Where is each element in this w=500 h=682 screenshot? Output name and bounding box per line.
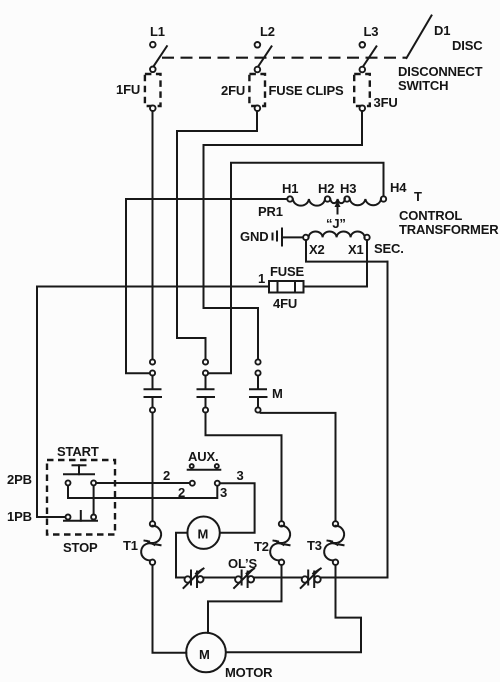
wire STOP right terminal up to START right terminal	[93, 486, 95, 515]
wire coil M to overload contacts	[176, 533, 187, 578]
svg-text:GND: GND	[240, 229, 268, 244]
overload contacts bus wire segment 4	[321, 577, 388, 579]
motor M	[186, 633, 226, 673]
svg-text:“J”: “J”	[326, 216, 346, 231]
fuse 2FU	[249, 74, 265, 111]
disconnect switch handle D1	[407, 16, 432, 59]
svg-text:DISCONNECT: DISCONNECT	[398, 64, 483, 79]
wire contact M3 to overload heater T3	[261, 413, 336, 521]
wire phase C from fuse 3FU down to contact M3	[204, 111, 363, 359]
svg-text:PR1: PR1	[258, 204, 283, 219]
overload heater T2	[270, 521, 290, 565]
svg-text:2PB: 2PB	[7, 472, 32, 487]
svg-text:1: 1	[258, 271, 265, 286]
wire heater T3 to motor	[226, 565, 361, 652]
svg-text:M: M	[199, 647, 210, 662]
transformer secondary winding SEC with X1 X2	[303, 232, 370, 241]
svg-text:T: T	[414, 189, 422, 204]
svg-text:2: 2	[163, 468, 170, 483]
overload contacts bus wire segment 1	[176, 577, 185, 579]
svg-text:3: 3	[237, 468, 244, 483]
wire START right terminal to AUX terminal 2	[96, 482, 190, 484]
svg-text:M: M	[198, 527, 209, 542]
svg-text:L1: L1	[150, 24, 165, 39]
wire contact M1 to overload heater T1	[152, 413, 154, 522]
pushbutton 1PB STOP (NC)	[64, 511, 97, 521]
svg-text:3: 3	[220, 485, 227, 500]
overload heater T1	[141, 521, 161, 565]
svg-text:SEC.: SEC.	[374, 241, 404, 256]
overload contacts bus wire segment 3	[254, 577, 301, 579]
contactor contact M2	[198, 359, 215, 412]
wire heater T1 to motor	[153, 565, 187, 653]
wire contact M2 to overload heater T2	[206, 413, 282, 522]
svg-text:H4: H4	[390, 180, 407, 195]
coil M	[187, 517, 219, 549]
svg-text:FUSE: FUSE	[270, 264, 305, 279]
svg-text:L3: L3	[364, 24, 379, 39]
disconnect switch pole L1	[150, 42, 167, 72]
fuse 3FU	[354, 74, 370, 111]
svg-text:3FU: 3FU	[374, 95, 398, 110]
mechanical link of disconnect switch (dashed)	[162, 57, 406, 59]
wire phase B from fuse 2FU down to contact M2	[177, 111, 257, 359]
svg-text:H1: H1	[282, 181, 298, 196]
svg-text:X1: X1	[348, 242, 364, 257]
AUX terminal 2	[190, 481, 195, 486]
svg-text:T2: T2	[254, 539, 269, 554]
wire heater T2 to motor top	[208, 565, 282, 633]
fuse 1FU	[145, 74, 161, 111]
wire fuse 4FU to left control bus	[37, 286, 269, 288]
svg-text:START: START	[57, 444, 99, 459]
overload contact OL3	[301, 569, 321, 589]
disconnect switch pole L2	[255, 42, 272, 72]
svg-text:2FU: 2FU	[221, 83, 245, 98]
svg-text:MOTOR: MOTOR	[225, 665, 273, 680]
svg-text:1FU: 1FU	[116, 82, 140, 97]
wire right-side control return bus	[387, 262, 389, 578]
wire START left terminal to AUX terminal 3 (holding circuit)	[68, 486, 217, 499]
svg-text:H3: H3	[340, 181, 356, 196]
svg-text:H2: H2	[318, 181, 334, 196]
svg-text:1PB: 1PB	[7, 509, 32, 524]
svg-text:FUSE CLIPS: FUSE CLIPS	[269, 83, 345, 98]
auxiliary contact AUX (NO)	[188, 464, 221, 470]
svg-text:M: M	[272, 386, 283, 401]
svg-text:T3: T3	[307, 538, 322, 553]
transformer T primary winding PR1 with taps H1 H2 H3 H4	[287, 196, 386, 205]
wire X1 down to fuse 4FU	[304, 240, 368, 286]
svg-text:2: 2	[178, 485, 185, 500]
svg-text:D1: D1	[434, 23, 450, 38]
wire from contact M1 junction up to transformer H1	[126, 199, 287, 373]
svg-text:X2: X2	[309, 242, 325, 257]
svg-text:CONTROL: CONTROL	[399, 208, 462, 223]
overload heater T3	[324, 521, 344, 565]
disconnect switch pole L3	[360, 42, 377, 72]
overload contact OL1	[184, 569, 204, 589]
pushbutton station dashed enclosure	[47, 460, 115, 535]
svg-text:TRANSFORMER: TRANSFORMER	[399, 222, 499, 237]
wire phase A from fuse 1FU down to contact M1	[152, 111, 154, 359]
wire from contact M2 junction up to transformer H4	[208, 163, 383, 373]
overload contacts bus wire segment 2	[204, 577, 235, 579]
svg-text:L2: L2	[260, 24, 275, 39]
contactor contact M3	[250, 359, 267, 412]
wire X2 return to right-side control bus	[306, 240, 388, 261]
contactor contact M1	[145, 359, 162, 412]
svg-text:STOP: STOP	[63, 540, 98, 555]
svg-text:AUX.: AUX.	[188, 449, 218, 464]
jumper J arrow	[335, 201, 341, 214]
svg-text:T1: T1	[123, 538, 138, 553]
AUX terminal 3	[215, 481, 220, 486]
wire AUX terminal 3 to coil M	[220, 483, 255, 533]
pushbutton 2PB START (NO)	[64, 465, 96, 485]
overload contact OL2	[234, 569, 254, 589]
svg-text:SWITCH: SWITCH	[398, 78, 448, 93]
wire left control bus down to STOP button	[37, 287, 66, 518]
ground GND on X2	[273, 229, 304, 246]
svg-text:DISC: DISC	[452, 38, 483, 53]
fuse 4FU	[269, 281, 304, 293]
svg-text:4FU: 4FU	[273, 296, 297, 311]
